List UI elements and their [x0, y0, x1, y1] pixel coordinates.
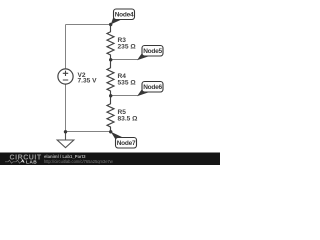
node Node4 callout	[111, 9, 135, 24]
svg-text:Node6: Node6	[143, 84, 162, 91]
CircuitLab logo in footer	[5, 155, 42, 166]
svg-text:535 Ω: 535 Ω	[118, 80, 137, 87]
junction dot ground rail	[64, 130, 67, 133]
node Node5 callout	[137, 46, 163, 61]
node Node7 callout	[111, 132, 137, 148]
node Node6 callout	[137, 82, 163, 97]
svg-text:Node7: Node7	[117, 140, 136, 147]
svg-text:235 Ω: 235 Ω	[118, 44, 137, 51]
resistor R5 (zigzag body)	[107, 96, 114, 133]
wire left rail upper (top corner down to V2 plus terminal)	[65, 25, 67, 70]
ground symbol	[57, 132, 74, 148]
wire node6 stub (R4/R5 junction to Node6 callout)	[111, 95, 138, 97]
svg-text:Node4: Node4	[115, 12, 134, 19]
resistor R3 (zigzag body)	[107, 25, 114, 61]
junction dot node B (R3/R4, Node5 attach point)	[109, 58, 112, 61]
wire bottom horizontal from ground junction to R5 bottom node	[66, 131, 112, 133]
wire top horizontal from V2 rail to R3 node	[66, 24, 112, 26]
junction dot node C (R4/R5, Node6 attach point)	[109, 94, 112, 97]
svg-text:LAB: LAB	[26, 160, 37, 165]
svg-text:Node5: Node5	[143, 48, 162, 55]
wire node5 stub (R3/R4 junction to Node5 callout)	[111, 59, 138, 61]
wire left rail lower (V2 minus terminal down to bottom rail)	[65, 84, 67, 132]
junction dot node D (bottom, Node7 attach point)	[109, 130, 112, 133]
voltage source V2 (circle symbol)	[58, 69, 73, 84]
svg-text:http://circuitlab.com/c/765a25: http://circuitlab.com/c/765a25qm3e7w	[44, 159, 113, 164]
svg-text:7.35 V: 7.35 V	[78, 78, 98, 85]
resistor R4 (zigzag body)	[107, 60, 114, 97]
svg-text:83.5 Ω: 83.5 Ω	[118, 116, 139, 123]
junction dot node A (top, Node4 attach point)	[109, 23, 112, 26]
footer watermark bar	[0, 153, 220, 166]
